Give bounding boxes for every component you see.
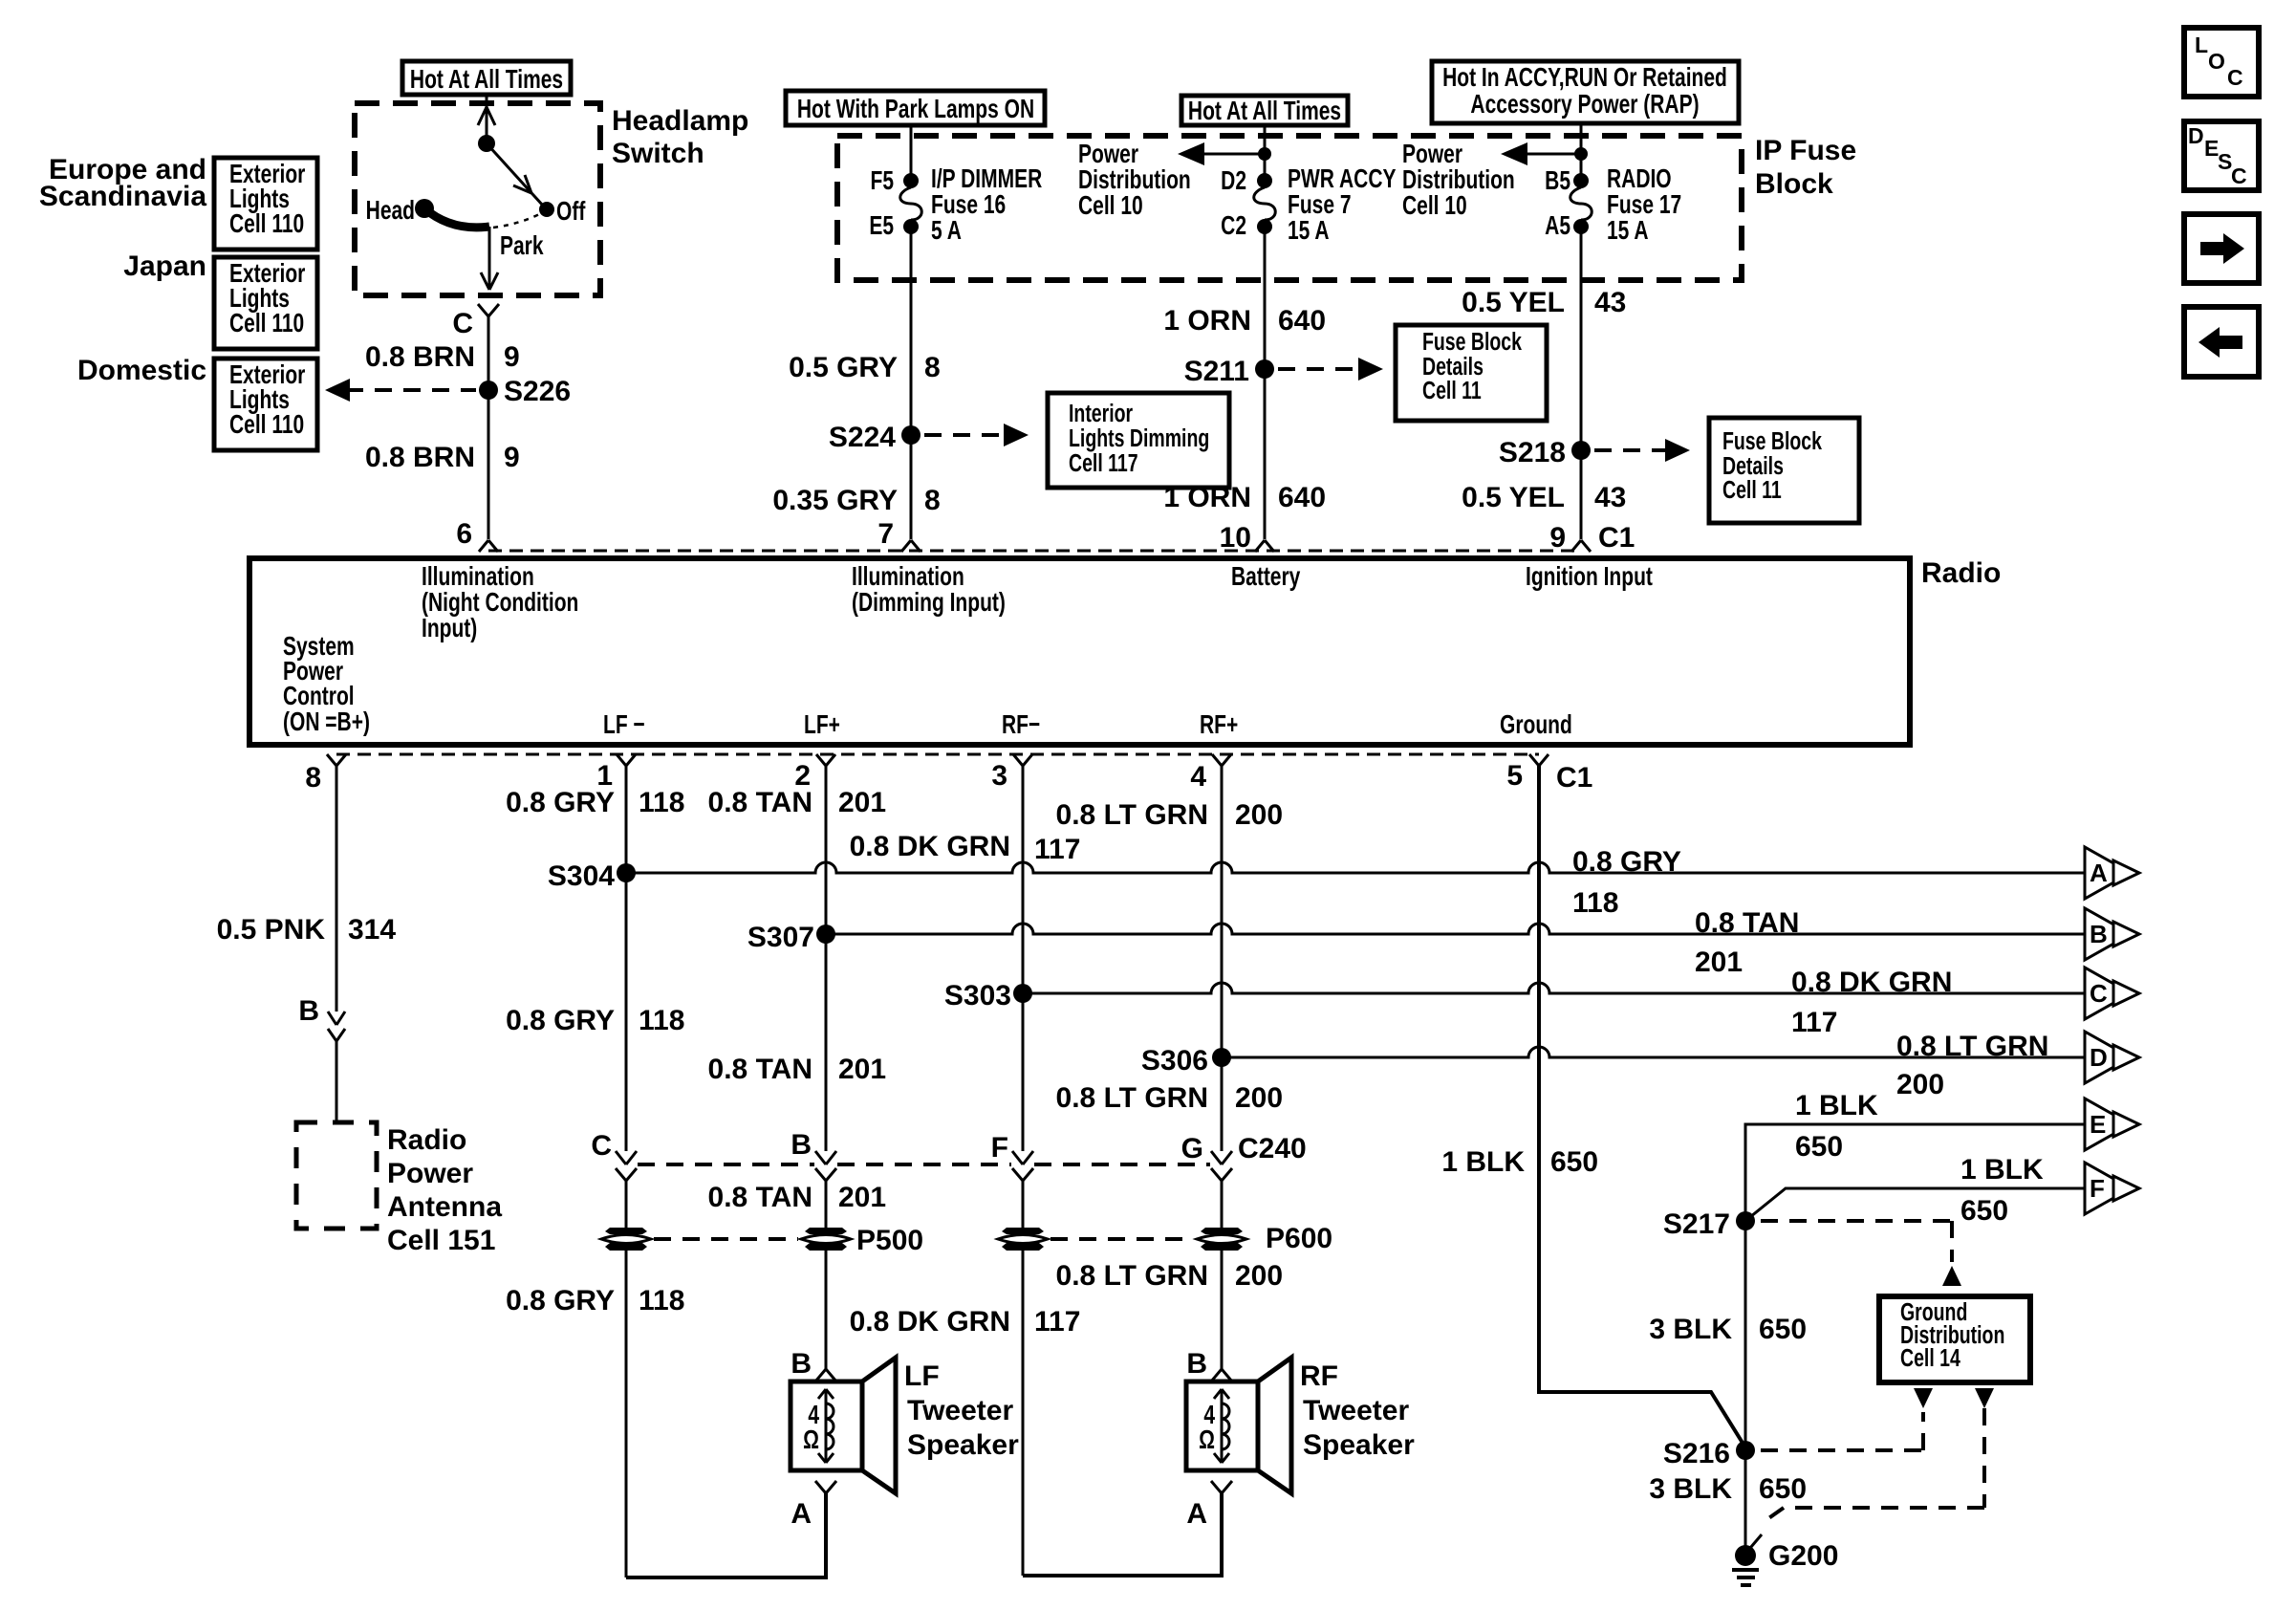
svg-text:S218: S218 bbox=[1499, 437, 1566, 468]
svg-text:P500: P500 bbox=[856, 1225, 923, 1256]
svg-text:Control: Control bbox=[283, 682, 355, 711]
svg-text:8: 8 bbox=[924, 485, 941, 516]
svg-text:Cell 11: Cell 11 bbox=[1422, 376, 1482, 403]
svg-text:0.8 TAN: 0.8 TAN bbox=[708, 1182, 812, 1213]
svg-text:Power: Power bbox=[1402, 140, 1462, 169]
svg-text:Cell 10: Cell 10 bbox=[1402, 191, 1467, 221]
svg-text:117: 117 bbox=[1034, 1306, 1080, 1338]
svg-text:640: 640 bbox=[1278, 305, 1326, 337]
wire label 0.8 TAN 201 (B) bbox=[1695, 907, 1799, 978]
svg-text:0.5 GRY: 0.5 GRY bbox=[789, 352, 898, 383]
svg-text:F5: F5 bbox=[870, 166, 894, 196]
svg-text:A: A bbox=[791, 1498, 812, 1530]
wire label 3 BLK 650 (lower) bbox=[1649, 1473, 1807, 1505]
dashed link P600 bbox=[1051, 1237, 1194, 1241]
svg-text:Power: Power bbox=[1078, 140, 1138, 169]
svg-text:118: 118 bbox=[639, 787, 684, 818]
wire label 1 ORN 640 (upper) bbox=[1163, 305, 1326, 337]
off-page connector F bbox=[2085, 1163, 2139, 1214]
connector C240 pin C bbox=[591, 1130, 637, 1181]
svg-text:200: 200 bbox=[1235, 799, 1283, 831]
svg-text:0.8 TAN: 0.8 TAN bbox=[708, 787, 812, 818]
splice S303 bbox=[944, 980, 1032, 1012]
svg-text:117: 117 bbox=[1791, 1007, 1837, 1038]
power label box: Hot In ACCY,RUN Or Retained Accessory Power (RAP) bbox=[1432, 61, 1739, 123]
switch wiper: thick arc Head to Park bbox=[424, 208, 489, 228]
svg-text:314: 314 bbox=[348, 914, 396, 946]
power distribution cell 10 label (battery) bbox=[1078, 140, 1191, 221]
svg-text:650: 650 bbox=[1960, 1195, 2008, 1227]
svg-text:Fuse 7: Fuse 7 bbox=[1288, 190, 1351, 220]
svg-text:201: 201 bbox=[838, 787, 886, 818]
wire label 0.8 DK GRN 117 (C) bbox=[1791, 967, 1952, 1038]
splice S216 bbox=[1663, 1438, 1755, 1469]
svg-text:1 BLK: 1 BLK bbox=[1960, 1154, 2044, 1186]
LF speaker pin A chevron bbox=[791, 1481, 836, 1530]
svg-text:S307: S307 bbox=[747, 922, 814, 953]
svg-text:650: 650 bbox=[1759, 1473, 1807, 1505]
wire label 0.5 GRY 8 bbox=[789, 352, 941, 383]
wire label 0.8 GRY 118 (mid) bbox=[506, 1005, 684, 1036]
svg-text:D: D bbox=[2188, 123, 2204, 148]
box: Exterior Lights Cell 110 (Europe) bbox=[214, 158, 317, 250]
svg-text:RF+: RF+ bbox=[1200, 710, 1238, 740]
svg-text:Cell 110: Cell 110 bbox=[229, 309, 304, 338]
fuse 17 pin labels bbox=[1545, 166, 1570, 241]
svg-text:Antenna: Antenna bbox=[387, 1191, 502, 1223]
svg-text:Ω: Ω bbox=[1199, 1425, 1215, 1455]
svg-text:1 ORN: 1 ORN bbox=[1163, 305, 1251, 337]
LF speaker pin B chevron bbox=[791, 1348, 836, 1382]
pin 7 connector chevron bbox=[901, 540, 921, 552]
svg-text:Illumination: Illumination bbox=[852, 562, 964, 592]
svg-text:Hot At All Times: Hot At All Times bbox=[410, 65, 563, 95]
svg-text:5: 5 bbox=[1506, 760, 1523, 792]
svg-text:9: 9 bbox=[1549, 522, 1566, 554]
wire: radio pin 4 (RF+) down bbox=[1221, 766, 1224, 1151]
wire: RF speaker A down and left to RF- wire bbox=[1023, 1493, 1222, 1576]
svg-text:0.8 GRY: 0.8 GRY bbox=[506, 1285, 615, 1316]
svg-text:Hot At All Times: Hot At All Times bbox=[1188, 97, 1341, 126]
svg-text:200: 200 bbox=[1896, 1069, 1944, 1100]
wire: C240 pin F down through P600 to lower corner bbox=[1022, 1181, 1025, 1576]
svg-text:0.8 TAN: 0.8 TAN bbox=[708, 1054, 812, 1085]
svg-text:201: 201 bbox=[838, 1054, 886, 1085]
Park label bbox=[500, 231, 544, 261]
second ground distribution arrow with dashed path to G200 bbox=[1761, 1388, 1994, 1524]
svg-text:Speaker: Speaker bbox=[907, 1429, 1019, 1461]
svg-text:Scandinavia: Scandinavia bbox=[39, 181, 206, 212]
svg-text:Ω: Ω bbox=[803, 1425, 819, 1455]
svg-text:15 A: 15 A bbox=[1288, 216, 1330, 246]
headlamp switch dashed box bbox=[355, 103, 600, 295]
svg-text:S303: S303 bbox=[944, 980, 1011, 1012]
svg-text:IP Fuse: IP Fuse bbox=[1755, 135, 1856, 166]
wire: fuse 17 to radio pin 9 bbox=[1580, 232, 1583, 539]
wire label 0.8 LT GRN 200 (top) bbox=[1056, 799, 1284, 831]
pin 1 connector chevron bbox=[596, 754, 636, 792]
svg-text:Distribution: Distribution bbox=[1402, 165, 1515, 195]
pin 10 connector chevron bbox=[1255, 540, 1274, 552]
box: Fuse Block Details Cell 11 (lower) bbox=[1709, 418, 1859, 523]
svg-text:Headlamp: Headlamp bbox=[612, 105, 748, 137]
off-page connector C bbox=[2085, 968, 2139, 1019]
wire label 0.8 LT GRN 200 (D) bbox=[1896, 1031, 2048, 1100]
svg-text:Lights Dimming: Lights Dimming bbox=[1069, 424, 1209, 451]
right arrow legend box bbox=[2184, 214, 2259, 283]
svg-text:D2: D2 bbox=[1221, 166, 1246, 196]
power label box: Hot With Park Lamps ON bbox=[786, 91, 1045, 125]
box: Interior Lights Dimming Cell 117 bbox=[1048, 393, 1229, 488]
svg-text:E: E bbox=[2090, 1110, 2106, 1139]
svg-text:Fuse 17: Fuse 17 bbox=[1607, 190, 1681, 220]
svg-text:118: 118 bbox=[1572, 887, 1618, 919]
splice S304 bbox=[548, 860, 636, 892]
svg-text:0.8 LT GRN: 0.8 LT GRN bbox=[1056, 1082, 1208, 1114]
svg-text:3 BLK: 3 BLK bbox=[1649, 1314, 1732, 1345]
splice S218 bbox=[1499, 437, 1591, 468]
wire: S216 down to G200 bbox=[1744, 1450, 1747, 1556]
svg-text:1 ORN: 1 ORN bbox=[1163, 482, 1251, 513]
svg-text:6: 6 bbox=[456, 518, 472, 550]
switch Off contact bbox=[539, 197, 586, 227]
svg-text:E5: E5 bbox=[869, 211, 894, 241]
wire: radio pin 8 to B connector bbox=[336, 766, 338, 1012]
splice S224 bbox=[829, 422, 921, 453]
power distribution arrow (battery) bbox=[1178, 142, 1271, 165]
box: Exterior Lights Cell 110 (Domestic) bbox=[214, 359, 317, 450]
wire label 0.5 PNK 314 bbox=[217, 914, 397, 946]
region label Europe and Scandinavia bbox=[39, 154, 206, 212]
radio port label Illumination (Dimming Input) bbox=[852, 562, 1006, 618]
svg-text:Cell 110: Cell 110 bbox=[229, 209, 304, 239]
svg-text:(Dimming Input): (Dimming Input) bbox=[852, 588, 1006, 618]
radio port label Illumination (Night Condition Input) bbox=[422, 562, 578, 643]
wire: C240 pin C down through P500 to lower corner bbox=[625, 1181, 628, 1577]
svg-text:LF+: LF+ bbox=[804, 710, 840, 740]
svg-text:RF−: RF− bbox=[1002, 710, 1040, 740]
connector C chevron below switch bbox=[452, 304, 499, 339]
fuse E5 terminal bbox=[903, 219, 919, 234]
RF speaker coil with arrows bbox=[1199, 1389, 1229, 1463]
pin 6 connector chevron bbox=[479, 540, 498, 552]
svg-text:(ON =B+): (ON =B+) bbox=[283, 707, 370, 737]
wire: radio pin 5 ground down, corner, to S216 bbox=[1539, 766, 1745, 1447]
svg-text:Fuse Block: Fuse Block bbox=[1722, 426, 1822, 454]
svg-text:650: 650 bbox=[1795, 1131, 1843, 1163]
LF tweeter speaker box bbox=[791, 1382, 862, 1470]
switch Head contact bbox=[366, 196, 434, 226]
svg-text:P600: P600 bbox=[1266, 1223, 1332, 1254]
dashed: S216 to ground distribution arrow bbox=[1761, 1388, 1933, 1450]
wire: fuse 7 to radio pin 10 bbox=[1264, 232, 1267, 539]
svg-text:Cell 110: Cell 110 bbox=[229, 410, 304, 440]
pass-through connector P500 on LF- wire bbox=[601, 1228, 651, 1251]
LF speaker horn bbox=[862, 1358, 896, 1493]
svg-text:10: 10 bbox=[1220, 522, 1251, 554]
svg-text:G: G bbox=[1181, 1133, 1203, 1164]
dashed arrow S218 to fuse block details bbox=[1594, 439, 1690, 462]
fuse 17 element bbox=[1570, 187, 1592, 220]
svg-text:0.8 GRY: 0.8 GRY bbox=[1572, 846, 1681, 878]
svg-text:Cell 14: Cell 14 bbox=[1900, 1343, 1960, 1371]
svg-text:650: 650 bbox=[1759, 1314, 1807, 1345]
svg-text:B: B bbox=[298, 995, 319, 1027]
svg-text:0.8 LT GRN: 0.8 LT GRN bbox=[1056, 799, 1208, 831]
svg-text:650: 650 bbox=[1550, 1146, 1598, 1178]
LF speaker label bbox=[904, 1360, 1019, 1461]
fuse F5 terminal bbox=[903, 173, 919, 188]
wire: RAP box into fuse block bbox=[1580, 123, 1583, 174]
RF speaker pin A chevron bbox=[1186, 1481, 1232, 1530]
wire label 0.8 TAN 201 (top) bbox=[708, 787, 887, 818]
wire: Hot At All Times box to switch pivot, arrow up bbox=[478, 95, 495, 143]
svg-text:9: 9 bbox=[504, 341, 520, 373]
off-page connector E bbox=[2085, 1099, 2139, 1150]
wire: S304 to connector A with hops bbox=[626, 862, 2085, 873]
wire label 0.8 BRN 9 (lower) bbox=[365, 442, 520, 473]
power distribution arrow (ignition) bbox=[1501, 142, 1588, 165]
svg-text:Park: Park bbox=[500, 231, 544, 261]
svg-text:Illumination: Illumination bbox=[422, 562, 534, 592]
wire label 0.5 YEL 43 (upper) bbox=[1462, 287, 1626, 318]
svg-text:Input): Input) bbox=[422, 614, 477, 643]
svg-text:B: B bbox=[1186, 1348, 1207, 1380]
splice S306 bbox=[1141, 1045, 1231, 1077]
connector C240 pin B bbox=[791, 1129, 836, 1181]
wire: park lamps box into fuse block bbox=[910, 125, 913, 174]
splice S226 bbox=[479, 376, 571, 407]
dashed box: radio power antenna bbox=[296, 1122, 377, 1229]
connector C240 pin G bbox=[1181, 1133, 1232, 1181]
splice S217 bbox=[1663, 1208, 1755, 1240]
in-line connector B on antenna wire bbox=[298, 995, 345, 1041]
off-page connector B bbox=[2085, 908, 2139, 960]
switch pivot node bbox=[478, 135, 495, 152]
svg-text:C1: C1 bbox=[1598, 522, 1635, 554]
switch arm to Off with arrowhead bbox=[487, 143, 543, 206]
fuse 7 element bbox=[1254, 187, 1276, 220]
svg-text:0.8 BRN: 0.8 BRN bbox=[365, 442, 475, 473]
svg-text:0.5 YEL: 0.5 YEL bbox=[1462, 287, 1565, 318]
svg-text:0.8 DK GRN: 0.8 DK GRN bbox=[850, 831, 1010, 862]
IP fuse block dashed box bbox=[837, 136, 1742, 280]
svg-text:Accessory Power (RAP): Accessory Power (RAP) bbox=[1470, 90, 1699, 120]
svg-text:LF −: LF − bbox=[603, 710, 645, 740]
svg-text:C: C bbox=[2090, 979, 2108, 1008]
radio box bbox=[249, 558, 1910, 745]
svg-text:200: 200 bbox=[1235, 1260, 1283, 1292]
svg-text:Switch: Switch bbox=[612, 138, 704, 169]
svg-text:0.8 TAN: 0.8 TAN bbox=[1695, 907, 1799, 939]
wire label 0.8 TAN 201 (below C240) bbox=[708, 1182, 887, 1213]
svg-text:Cell 11: Cell 11 bbox=[1722, 475, 1782, 503]
pass-through connector P500 on LF+ wire bbox=[801, 1225, 923, 1256]
svg-text:Interior: Interior bbox=[1069, 399, 1133, 426]
svg-text:Radio: Radio bbox=[387, 1124, 466, 1156]
svg-text:117: 117 bbox=[1034, 834, 1080, 865]
svg-text:S304: S304 bbox=[548, 860, 615, 892]
svg-text:B: B bbox=[791, 1129, 812, 1161]
svg-text:Distribution: Distribution bbox=[1078, 165, 1191, 195]
splice S307 bbox=[747, 922, 835, 953]
pin 3 connector chevron bbox=[991, 754, 1032, 792]
svg-text:4: 4 bbox=[1190, 761, 1206, 793]
svg-text:(Night Condition: (Night Condition bbox=[422, 588, 578, 618]
svg-text:9: 9 bbox=[504, 442, 520, 473]
svg-text:Hot In ACCY,RUN Or Retained: Hot In ACCY,RUN Or Retained bbox=[1442, 63, 1727, 93]
svg-text:0.8 LT GRN: 0.8 LT GRN bbox=[1056, 1260, 1208, 1292]
box: Fuse Block Details Cell 11 (upper) bbox=[1396, 325, 1547, 421]
wire label 0.35 GRY 8 bbox=[772, 485, 940, 516]
pass-through connector P600 on RF- wire bbox=[998, 1228, 1048, 1251]
svg-text:G200: G200 bbox=[1768, 1540, 1838, 1572]
wire label 0.8 TAN 201 (mid) bbox=[708, 1054, 887, 1085]
box: Exterior Lights Cell 110 (Japan) bbox=[214, 257, 317, 349]
pin 2 connector chevron bbox=[794, 754, 835, 792]
pin 9 number and C1 bbox=[1549, 522, 1635, 554]
wire: radio pin 1 (LF-) down bbox=[625, 766, 628, 1151]
wire label 0.8 GRY 118 (below P500) bbox=[506, 1285, 684, 1316]
svg-text:C: C bbox=[2227, 65, 2243, 90]
wire label 0.8 GRY 118 (A) bbox=[1572, 846, 1681, 919]
svg-text:C: C bbox=[2231, 163, 2247, 188]
pin 4 connector chevron bbox=[1190, 754, 1231, 793]
svg-text:3 BLK: 3 BLK bbox=[1649, 1473, 1732, 1505]
svg-text:Tweeter: Tweeter bbox=[907, 1395, 1013, 1426]
svg-text:Tweeter: Tweeter bbox=[1303, 1395, 1409, 1426]
connector C240 pin F bbox=[991, 1132, 1033, 1181]
svg-text:Block: Block bbox=[1755, 168, 1833, 200]
RF speaker pin B chevron bbox=[1186, 1348, 1232, 1382]
wire: S307 to connector B with hops bbox=[826, 924, 2085, 934]
svg-text:0.8 GRY: 0.8 GRY bbox=[506, 1005, 615, 1036]
fuse 16 pin labels bbox=[869, 166, 894, 241]
svg-text:I/P DIMMER: I/P DIMMER bbox=[931, 164, 1042, 194]
svg-text:7: 7 bbox=[877, 518, 894, 550]
svg-text:RF: RF bbox=[1300, 1360, 1338, 1392]
LF speaker coil with arrows bbox=[803, 1389, 834, 1463]
svg-text:C: C bbox=[591, 1130, 612, 1162]
svg-text:0.8 DK GRN: 0.8 DK GRN bbox=[1791, 967, 1952, 998]
ground G200 bbox=[1732, 1534, 1838, 1585]
svg-text:Radio: Radio bbox=[1921, 557, 2001, 589]
svg-text:Fuse 16: Fuse 16 bbox=[931, 190, 1006, 220]
svg-text:A: A bbox=[2090, 859, 2108, 887]
wire label 1 ORN 640 (lower) bbox=[1163, 482, 1326, 513]
wire: B connector to radio power antenna bbox=[336, 1041, 338, 1122]
svg-text:O: O bbox=[2208, 49, 2225, 74]
wire label 0.8 GRY 118 (top) bbox=[506, 787, 684, 818]
svg-text:Cell 117: Cell 117 bbox=[1069, 448, 1138, 476]
dashed: S217 to ground distribution arrow bbox=[1761, 1221, 1961, 1286]
svg-text:Speaker: Speaker bbox=[1303, 1429, 1415, 1461]
svg-text:5 A: 5 A bbox=[931, 216, 962, 246]
RF speaker horn bbox=[1258, 1358, 1291, 1493]
off-page connector D bbox=[2085, 1032, 2139, 1083]
fuse 7 pin labels bbox=[1221, 166, 1246, 241]
radio power antenna label bbox=[387, 1124, 502, 1256]
svg-text:Fuse Block: Fuse Block bbox=[1422, 327, 1522, 355]
dashed link P500 bbox=[654, 1237, 798, 1241]
wire label 1 BLK 650 (ground vertical) bbox=[1441, 1146, 1598, 1178]
svg-text:0.8 LT GRN: 0.8 LT GRN bbox=[1896, 1031, 2048, 1062]
DESC legend box bbox=[2184, 121, 2259, 190]
wire label 1 BLK 650 (F) bbox=[1960, 1154, 2044, 1227]
svg-text:201: 201 bbox=[1695, 946, 1743, 978]
svg-text:A5: A5 bbox=[1545, 211, 1570, 241]
svg-text:F: F bbox=[2090, 1174, 2105, 1203]
svg-text:B5: B5 bbox=[1545, 166, 1570, 196]
svg-text:Battery: Battery bbox=[1231, 562, 1301, 592]
radio port label Ignition Input bbox=[1526, 562, 1653, 592]
svg-text:Head: Head bbox=[366, 196, 415, 226]
svg-text:F: F bbox=[991, 1132, 1008, 1164]
wire: fuse 16 to radio pin 7 bbox=[910, 232, 913, 539]
splice S211 bbox=[1184, 356, 1274, 387]
wire: C240 pin G down through P600 to RF speaker B bbox=[1221, 1181, 1224, 1370]
dashed arrow S211 to fuse block details bbox=[1278, 358, 1383, 381]
off-page connector A bbox=[2085, 847, 2139, 899]
svg-text:Cell 151: Cell 151 bbox=[387, 1225, 495, 1256]
svg-text:A: A bbox=[1186, 1498, 1207, 1530]
radio port labels LF- LF+ RF- RF+ Ground bbox=[603, 710, 1572, 740]
wire label 0.5 YEL 43 (lower) bbox=[1462, 482, 1626, 513]
svg-text:1 BLK: 1 BLK bbox=[1441, 1146, 1525, 1178]
wire label 0.8 LT GRN 200 (mid) bbox=[1056, 1082, 1284, 1114]
wire: corner up to connector E bbox=[1745, 1124, 2085, 1221]
fuse 17 name labels bbox=[1607, 164, 1681, 246]
wire: radio pin 2 (LF+) down bbox=[825, 766, 828, 1151]
svg-text:Cell 10: Cell 10 bbox=[1078, 191, 1143, 221]
svg-text:8: 8 bbox=[924, 352, 941, 383]
wire label 1 BLK 650 (E) bbox=[1795, 1090, 1878, 1163]
pin 9 connector chevron bbox=[1571, 540, 1591, 552]
power distribution cell 10 label (ignition) bbox=[1402, 140, 1515, 221]
svg-text:C1: C1 bbox=[1556, 762, 1592, 794]
svg-text:Power: Power bbox=[387, 1158, 473, 1189]
svg-text:118: 118 bbox=[639, 1005, 684, 1036]
svg-text:0.8 BRN: 0.8 BRN bbox=[365, 341, 475, 373]
power label box: Hot At All Times (above headlamp switch) bbox=[402, 61, 571, 95]
pass-through connector P600 on RF+ wire bbox=[1197, 1223, 1332, 1254]
svg-text:43: 43 bbox=[1594, 287, 1626, 318]
svg-text:S217: S217 bbox=[1663, 1208, 1730, 1240]
wire label 0.8 DK GRN 117 (top) bbox=[850, 831, 1081, 865]
svg-text:3: 3 bbox=[991, 760, 1007, 792]
svg-text:200: 200 bbox=[1235, 1082, 1283, 1114]
fuse 16 element bbox=[900, 187, 922, 220]
radio port label Battery bbox=[1231, 562, 1301, 592]
pin 8 connector chevron bbox=[305, 754, 346, 794]
svg-text:201: 201 bbox=[838, 1182, 886, 1213]
svg-text:LF: LF bbox=[904, 1360, 940, 1392]
svg-text:0.35 GRY: 0.35 GRY bbox=[772, 485, 898, 516]
pin 5 connector chevron and C1 bbox=[1506, 754, 1592, 794]
fuse 16 name labels bbox=[931, 164, 1042, 246]
svg-text:B: B bbox=[2090, 920, 2108, 948]
IP Fuse Block label bbox=[1755, 135, 1856, 200]
svg-text:640: 640 bbox=[1278, 482, 1326, 513]
wire: battery box into fuse block bbox=[1264, 125, 1267, 174]
LOC legend box bbox=[2184, 28, 2259, 97]
svg-text:S306: S306 bbox=[1141, 1045, 1208, 1077]
wire: S217 down to S216 bbox=[1744, 1221, 1747, 1450]
svg-text:0.8 DK GRN: 0.8 DK GRN bbox=[850, 1306, 1010, 1338]
box: Ground Distribution Cell 14 bbox=[1879, 1296, 2030, 1382]
svg-text:15 A: 15 A bbox=[1607, 216, 1649, 246]
svg-text:S226: S226 bbox=[504, 376, 571, 407]
